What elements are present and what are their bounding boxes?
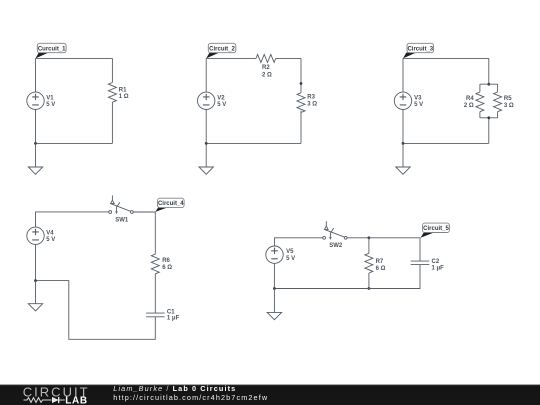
svg-text:1 μF: 1 μF xyxy=(167,316,180,322)
voltage source V1 xyxy=(27,92,44,109)
svg-text:R2: R2 xyxy=(262,65,270,71)
svg-text:5 V: 5 V xyxy=(286,256,295,262)
label C2 value xyxy=(432,259,445,271)
svg-text:Circuit_4: Circuit_4 xyxy=(158,201,184,207)
wire top-left Circuit_2 xyxy=(206,57,256,59)
wire bracket bottom parallel xyxy=(480,117,498,119)
label R4 value xyxy=(464,96,474,109)
footer logo diode xyxy=(52,397,65,403)
wire V5 bottom Circuit_5 xyxy=(273,264,275,289)
label V5 value xyxy=(286,249,295,262)
footer bar xyxy=(0,385,540,405)
label V2 value xyxy=(217,95,226,108)
svg-text:R5: R5 xyxy=(504,96,512,102)
wire left lower Circuit_1 xyxy=(35,110,37,144)
wire bracket top parallel xyxy=(480,83,498,85)
wire top Circuit_3 xyxy=(403,57,489,59)
svg-text:2 Ω: 2 Ω xyxy=(262,73,272,79)
wire SW1 to corner Circuit_4 xyxy=(133,212,155,254)
resistor R7 xyxy=(365,253,373,273)
svg-text:5 V: 5 V xyxy=(46,102,55,108)
wire R7 top stub xyxy=(368,238,370,254)
ground Circuit_1 xyxy=(28,143,42,174)
voltage source V4 xyxy=(27,227,44,244)
wire V4 top to corner Circuit_4 xyxy=(36,212,109,227)
wire right lower Circuit_3 xyxy=(488,118,490,144)
wire bottom Circuit_2 xyxy=(206,142,301,144)
svg-text:SW1: SW1 xyxy=(115,217,129,223)
label R3 value xyxy=(307,95,317,108)
svg-text:Curcuit_1: Curcuit_1 xyxy=(38,46,66,52)
node label Curcuit_1 xyxy=(36,43,67,58)
svg-text:3 Ω: 3 Ω xyxy=(307,102,317,108)
wire right upper Circuit_1 xyxy=(111,58,113,82)
svg-text:6 Ω: 6 Ω xyxy=(376,266,386,272)
junction dot parallel bottom xyxy=(487,116,490,119)
junction dot parallel top xyxy=(487,83,490,86)
label R2 value xyxy=(262,65,272,78)
resistor R2 xyxy=(256,54,276,62)
wire R7 top node to C2 corner xyxy=(369,238,420,261)
label V3 value xyxy=(414,95,423,108)
junction dot R7 top xyxy=(368,236,371,239)
svg-text:1 Ω: 1 Ω xyxy=(119,94,129,100)
switch SW1 xyxy=(109,195,133,214)
svg-text:SW2: SW2 xyxy=(329,243,343,249)
ground Circuit_2 xyxy=(199,143,213,174)
svg-text:Liam_Burke / Lab 0 Circuits: Liam_Burke / Lab 0 Circuits xyxy=(113,384,236,393)
svg-text:5 V: 5 V xyxy=(46,237,55,243)
wire R7 bottom stub xyxy=(368,273,370,289)
wire bottom Circuit_3 xyxy=(403,142,489,144)
capacitor C2 xyxy=(411,261,430,265)
label C1 value xyxy=(167,310,180,322)
switch SW2 xyxy=(323,221,347,240)
svg-text:V5: V5 xyxy=(286,249,294,255)
wire right upper Circuit_3 xyxy=(488,58,490,84)
wire left lower Circuit_2 xyxy=(205,110,207,144)
wire right upper Circuit_2 xyxy=(300,58,302,92)
svg-text:5 V: 5 V xyxy=(414,102,423,108)
svg-text:V3: V3 xyxy=(414,95,422,101)
label R6 value xyxy=(162,258,172,271)
wire R6 to C1 xyxy=(154,274,156,313)
voltage source V5 xyxy=(266,246,283,263)
svg-text:C2: C2 xyxy=(432,259,440,265)
resistor R4 xyxy=(476,84,484,118)
svg-text:V4: V4 xyxy=(46,230,54,236)
wire left upper Circuit_1 xyxy=(35,58,37,92)
svg-text:Circuit_2: Circuit_2 xyxy=(209,46,235,52)
wire right lower Circuit_2 xyxy=(300,111,302,144)
svg-text:Circuit_5: Circuit_5 xyxy=(423,226,449,232)
svg-text:R1: R1 xyxy=(119,88,127,94)
label V4 value xyxy=(46,230,55,243)
resistor R5 xyxy=(494,84,502,118)
svg-text:1 μF: 1 μF xyxy=(432,266,445,272)
wire top Circuit_1 xyxy=(36,57,113,59)
node label Circuit_4 xyxy=(155,198,184,212)
svg-text:R7: R7 xyxy=(376,259,384,265)
wire V4 bottom Circuit_4 xyxy=(35,245,37,281)
resistor R6 xyxy=(151,254,159,274)
wire SW2 to R7 node xyxy=(347,237,369,239)
svg-text:R6: R6 xyxy=(162,258,170,264)
junction dot R3 top xyxy=(300,82,303,85)
ground Circuit_4 xyxy=(28,281,42,311)
junction dot Circuit_5 ground node xyxy=(273,287,276,290)
wire left upper Circuit_3 xyxy=(402,58,404,92)
svg-text:3 Ω: 3 Ω xyxy=(504,103,514,109)
svg-text:http://circuitlab.com/cr4h2b7c: http://circuitlab.com/cr4h2b7cm2efw xyxy=(113,393,268,402)
svg-text:6 Ω: 6 Ω xyxy=(162,265,172,271)
svg-text:R4: R4 xyxy=(466,96,474,102)
wire top-right Circuit_2 xyxy=(276,57,301,59)
svg-text:5 V: 5 V xyxy=(217,102,226,108)
voltage source V3 xyxy=(394,92,411,109)
wire V5 top to SW2 xyxy=(275,238,323,246)
resistor R3 xyxy=(297,93,305,113)
junction dot Circuit_1 ground node xyxy=(34,142,37,145)
wire bottom Circuit_1 xyxy=(36,142,113,144)
junction dot Circuit_3 ground node xyxy=(402,142,405,145)
label R5 value xyxy=(504,96,514,109)
wire right lower Circuit_1 xyxy=(111,102,113,143)
voltage source V2 xyxy=(198,92,215,109)
node label Circuit_3 xyxy=(403,43,434,58)
svg-text:2 Ω: 2 Ω xyxy=(464,103,474,109)
capacitor C1 xyxy=(146,313,165,317)
svg-text:LAB: LAB xyxy=(65,396,87,405)
svg-text:V1: V1 xyxy=(46,95,54,101)
wire left upper Circuit_2 xyxy=(205,58,207,92)
node label Circuit_2 xyxy=(206,43,236,58)
footer logo resistor squiggle xyxy=(24,398,52,403)
node label Circuit_5 xyxy=(421,223,450,238)
svg-text:Circuit_3: Circuit_3 xyxy=(407,46,433,52)
label R1 value xyxy=(119,88,129,101)
svg-text:R3: R3 xyxy=(307,95,315,101)
wire C2 bottom to bottom rail Circuit_5 xyxy=(274,265,420,289)
ground Circuit_3 xyxy=(396,143,410,174)
ground Circuit_5 xyxy=(267,289,281,320)
svg-text:V2: V2 xyxy=(217,95,225,101)
label R7 value xyxy=(376,259,386,272)
junction dot R7 bottom xyxy=(368,287,371,290)
junction dot Circuit_4 ground node xyxy=(34,279,37,282)
wire left lower Circuit_3 xyxy=(402,110,404,144)
junction dot Circuit_2 ground node xyxy=(205,142,208,145)
wire C1 to bottom Circuit_4 xyxy=(36,281,156,340)
resistor R1 xyxy=(108,83,116,103)
label V1 value xyxy=(46,95,55,108)
